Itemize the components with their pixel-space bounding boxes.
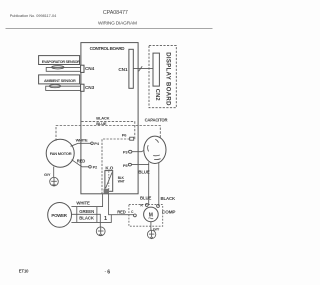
svg-text:6: 6 <box>107 269 110 275</box>
wire fan motor white <box>71 143 91 146</box>
svg-text:WHITE: WHITE <box>76 200 90 205</box>
svg-text:EVAPORATOR SENSOR: EVAPORATOR SENSOR <box>42 60 80 64</box>
svg-text:DISPLAY BOARD: DISPLAY BOARD <box>164 52 170 106</box>
control board box <box>81 43 138 194</box>
svg-text:CN1: CN1 <box>118 67 128 72</box>
wire OLP to compressor C <box>109 194 134 215</box>
svg-text:G/Y: G/Y <box>44 172 51 177</box>
wire blue bus <box>56 126 160 141</box>
svg-text:POWER: POWER <box>51 213 67 218</box>
compressor dashed box <box>129 205 163 227</box>
wire P5 to compressor R <box>132 165 149 205</box>
terminal P4 <box>91 142 94 145</box>
svg-text:CAPACITOR: CAPACITOR <box>145 118 168 123</box>
svg-text:Publication No. 0998117-04: Publication No. 0998117-04 <box>10 14 57 18</box>
fan motor <box>46 139 74 167</box>
svg-text:GREEN: GREEN <box>79 209 94 214</box>
svg-text:WIRING DIAGRAM: WIRING DIAGRAM <box>98 21 137 27</box>
wire P3 to capacitor <box>132 150 144 151</box>
wire fan motor red <box>72 160 89 167</box>
svg-text:ET10: ET10 <box>19 268 29 273</box>
svg-text:COMP: COMP <box>162 210 175 215</box>
capacitor internal marks <box>148 139 161 159</box>
header rule <box>6 27 213 29</box>
cable slash tick <box>139 66 143 71</box>
wire P6 to OLP drop <box>102 139 130 194</box>
svg-text:BLUE: BLUE <box>96 121 107 126</box>
power wire green <box>71 214 100 227</box>
ambient sensor wire <box>46 85 81 91</box>
svg-text:RED: RED <box>77 158 86 163</box>
power label dividers <box>76 207 78 223</box>
evaporator sensor wire <box>46 66 80 72</box>
svg-text:RED: RED <box>117 209 126 214</box>
svg-text:CONTROL BOARD: CONTROL BOARD <box>90 46 126 51</box>
evaporator sensor box <box>39 56 80 65</box>
compressor terminal R <box>145 204 148 207</box>
svg-text:BLACK: BLACK <box>79 216 95 221</box>
power plug <box>48 203 72 228</box>
fan motor ground wire <box>53 167 55 178</box>
svg-text:CN4: CN4 <box>85 66 95 71</box>
svg-text:AMBIENT SENSOR: AMBIENT SENSOR <box>44 79 76 83</box>
compressor motor M <box>144 207 159 222</box>
connector CN3 <box>81 84 84 91</box>
svg-text:WHT: WHT <box>118 179 125 183</box>
wire capacitor bottom to compressor S <box>158 163 160 206</box>
terminal P2 <box>89 166 92 169</box>
compressor terminal S <box>157 205 160 208</box>
svg-text:FAN MOTOR: FAN MOTOR <box>50 151 72 156</box>
svg-text:CPA08477: CPA08477 <box>103 10 128 16</box>
svg-text:CN3: CN3 <box>85 85 95 90</box>
svg-text:BLUE: BLUE <box>138 170 150 175</box>
svg-text:BLUE: BLUE <box>140 195 152 200</box>
svg-text:WHITE: WHITE <box>76 138 88 143</box>
fan motor ground symbol <box>50 177 59 186</box>
svg-text:BLACK: BLACK <box>161 196 177 201</box>
connector CN1 <box>129 49 133 88</box>
power ground symbol <box>96 227 105 236</box>
compressor terminal C <box>134 214 137 217</box>
power wire white <box>71 194 102 207</box>
compressor ground wire <box>150 222 152 230</box>
wire capacitor bottom-left <box>148 162 150 164</box>
connector CN4 <box>81 65 84 72</box>
svg-text:1: 1 <box>104 216 107 222</box>
display board box <box>149 46 176 108</box>
wire black bus <box>81 122 135 139</box>
capacitor body <box>144 136 166 163</box>
ambient sensor box <box>39 75 80 84</box>
power wire black <box>71 215 111 223</box>
compressor ground symbol <box>147 230 155 238</box>
svg-text:K.O: K.O <box>105 166 113 171</box>
svg-text:BLACK: BLACK <box>96 116 109 121</box>
wire CN1 to CN2 <box>133 67 153 69</box>
connector CN2 <box>153 53 159 86</box>
svg-text:CN2: CN2 <box>154 89 160 101</box>
